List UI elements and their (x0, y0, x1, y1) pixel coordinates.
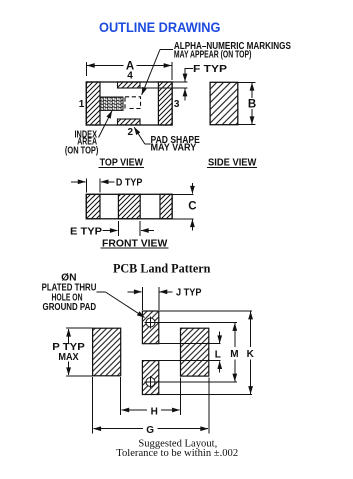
dimension G line with arrows (93, 428, 143, 430)
dimension J arrows (128, 291, 142, 293)
svg-text:MAX: MAX (58, 352, 79, 363)
dimension E witness ticks (117, 221, 119, 236)
svg-text:L: L (215, 349, 221, 360)
svg-text:B: B (248, 99, 256, 111)
dimension M witness lines (151, 322, 238, 324)
plated hole top (circle with crosshair) (146, 318, 155, 327)
dimension P arrows (68, 329, 70, 343)
terminal 2 pad (bottom middle, hatched) (118, 119, 141, 125)
dimension B line with arrows (251, 83, 253, 98)
dimension C witness lines (173, 193, 194, 195)
front terminal 1 block (86, 194, 100, 219)
svg-text:Tolerance to be within ±.002: Tolerance to be within ±.002 (116, 448, 238, 459)
land pad 4 (center top, hatched) (142, 311, 158, 344)
svg-text:K: K (247, 349, 255, 360)
dimension E arrows (103, 230, 118, 232)
land pad 3 (right, hatched) (181, 328, 209, 376)
land pad 2 (center bottom, hatched) (142, 361, 158, 395)
dimension C arrows (191, 183, 193, 194)
svg-text:E TYP: E TYP (70, 227, 102, 238)
dimension P witness lines (66, 327, 92, 329)
svg-text:H: H (151, 406, 158, 417)
svg-text:MAY APPEAR (ON TOP): MAY APPEAR (ON TOP) (174, 49, 252, 60)
dimension L witness lines (159, 343, 221, 345)
plated hole bottom (circle with crosshair) (146, 378, 155, 387)
terminal 4 pad (top middle, hatched) (118, 82, 141, 88)
svg-text:2: 2 (128, 127, 134, 138)
svg-text:PCB Land Pattern: PCB Land Pattern (113, 262, 211, 276)
dimension D arrows (71, 181, 86, 183)
svg-text:G: G (146, 425, 154, 436)
svg-text:F TYP: F TYP (193, 64, 227, 75)
leader from plated thru note to top hole (97, 291, 106, 293)
leader from pad note to terminal 2 (145, 143, 151, 145)
leader from marking note to dashed box (160, 49, 173, 51)
front view body outline (86, 194, 172, 219)
index area (scale pattern) (100, 97, 123, 110)
svg-text:A: A (126, 61, 134, 73)
svg-text:D TYP: D TYP (116, 178, 143, 189)
svg-text:1: 1 (79, 99, 85, 110)
top view body outline (86, 82, 172, 125)
dimension B witness lines (238, 81, 256, 83)
svg-text:M: M (230, 349, 238, 360)
svg-text:C: C (188, 200, 196, 212)
leader from index note to index area (99, 111, 113, 138)
svg-text:OUTLINE DRAWING: OUTLINE DRAWING (99, 20, 221, 36)
svg-text:(ON TOP): (ON TOP) (65, 145, 99, 156)
dimension A witness lines (85, 62, 87, 76)
dimension F witness lines (173, 81, 188, 83)
dimension K line with arrows (250, 312, 252, 347)
front terminal 3 block (160, 194, 172, 219)
dimension H witness lines (120, 377, 122, 415)
dimension G witness lines (92, 377, 94, 434)
svg-text:J TYP: J TYP (176, 288, 202, 299)
dimension K witness lines (159, 310, 252, 312)
dimension A line with arrows (87, 65, 124, 67)
terminal 3 pad (right, hatched) (158, 82, 172, 125)
dimension F leader and arrows (185, 69, 193, 71)
dimension L arrows (219, 332, 221, 344)
terminal 1 pad (left, hatched) (86, 82, 100, 125)
dimension J witness lines (141, 287, 143, 310)
svg-text:GROUND PAD: GROUND PAD (43, 302, 97, 313)
dimension H line with arrows (122, 409, 148, 411)
side view body (hatched) (210, 82, 238, 124)
dimension D witness ticks (85, 179, 87, 193)
marking area dashed box (125, 97, 141, 109)
svg-text:MAY VARY: MAY VARY (151, 143, 197, 154)
land pad 1 (left, hatched) (93, 328, 121, 376)
dimension M line with arrows (234, 323, 236, 347)
front terminal 2 block (118, 194, 140, 219)
svg-text:3: 3 (174, 99, 180, 110)
